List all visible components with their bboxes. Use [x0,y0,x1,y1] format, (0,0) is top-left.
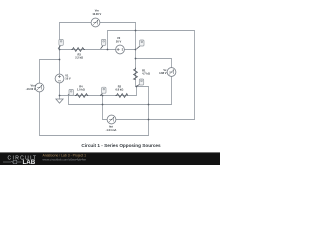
svg-text:4.88 V: 4.88 V [159,71,167,75]
footer bar [0,152,220,165]
voltmeter Vm [91,18,100,27]
flag node G [68,89,73,95]
junction top return rail crossing [135,30,137,32]
wire Vtot branch [40,60,149,136]
flag node X [136,79,143,86]
wire Vx branch [136,59,172,105]
ground [56,99,63,103]
svg-text:6.8 kΩ: 6.8 kΩ [115,88,123,92]
voltmeter Vtot [35,83,44,92]
svg-text:1.0 kΩ: 1.0 kΩ [77,87,85,91]
svg-text:LAB: LAB [23,159,36,165]
junction Vx tap top [135,58,137,60]
junction bottom row crossing [148,119,150,121]
flag node C [101,39,106,48]
wire middle vertical with jog [136,23,149,136]
svg-text:10 V: 10 V [65,77,71,81]
flag node A [58,39,63,48]
junction node J (R4 / R2 / ammeter drop) [102,95,104,97]
flag node B [137,40,144,49]
wire top rail [60,22,136,24]
wire left vertical [59,23,61,75]
junction node A (V1+ / R3 / Vm loop) [59,49,61,51]
wire V1 bottom to ground node [59,83,61,99]
svg-text:4.7 kΩ: 4.7 kΩ [142,71,150,75]
svg-text:2.2 kΩ: 2.2 kΩ [75,55,83,59]
wire upper return rail [108,31,195,120]
ammeter Itot [107,115,116,124]
junction node X lower rail [148,104,150,106]
flag node J [100,87,106,96]
svg-text:10.00 V: 10.00 V [92,12,101,16]
wire R3 V2 row [60,49,136,51]
voltage source V1 [55,74,64,83]
resistor R3 [71,48,85,52]
svg-text:-1.04 mA: -1.04 mA [106,128,117,132]
svg-text:20 V: 20 V [116,39,122,43]
footer logo squiggle [3,161,22,163]
resistor R1 (vertical) [134,68,138,80]
junction Vtot tap [59,59,61,61]
wire R4 R2 rail [60,87,137,96]
junction ammeter drop crossing lower rail [102,104,104,106]
junction node X (R1 bottom / R2 right) [136,86,138,88]
svg-text:-10.00 V: -10.00 V [26,87,36,91]
junction node C (R3 / V2- / outer loop) [107,49,109,51]
resistor R2 [115,94,127,98]
junction node G (V1- / ground / R4) [59,95,61,97]
voltage source V2 [116,45,125,54]
svg-text:Circuit 1 - Series Opposing So: Circuit 1 - Series Opposing Sources [81,143,161,148]
wire lower mid rail [69,96,172,105]
svg-text:www.circuitlab.com/c6ww4pb4wr: www.circuitlab.com/c6ww4pb4wr [43,158,87,162]
voltmeter Vx [167,68,176,77]
wire ammeter drop and bottom row [103,96,195,120]
junction node B (V2+ / R1 top) [135,49,137,51]
labels [26,9,167,132]
resistor R4 [75,94,88,98]
